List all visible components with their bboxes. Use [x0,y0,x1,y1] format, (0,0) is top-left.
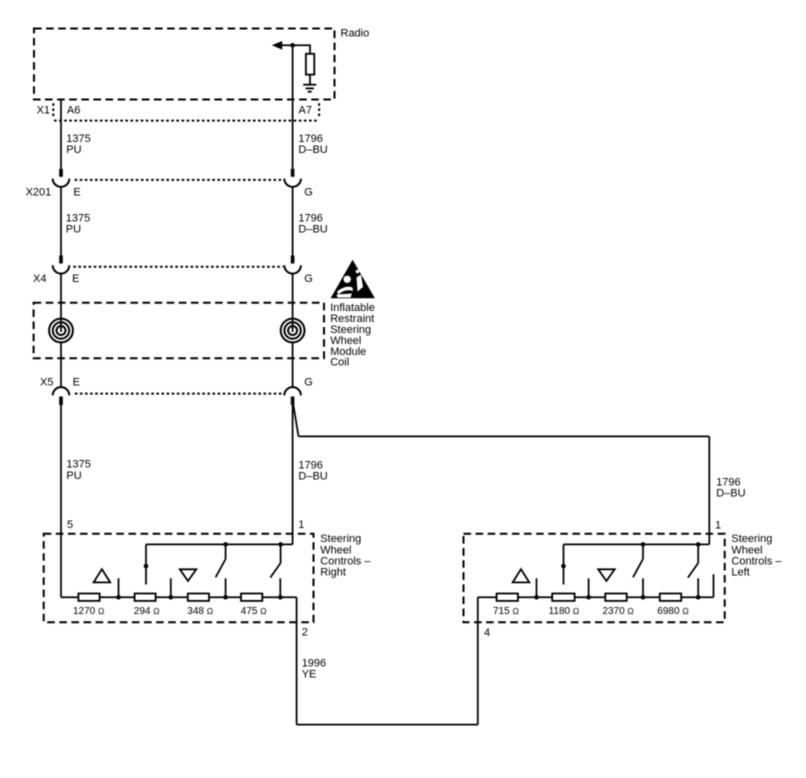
switch S1 fixed contact (right box) [145,544,147,584]
bus junction dots (right box) [116,595,121,600]
connector X201 pin row dotted line [75,179,283,181]
wire: branch jog from X5 G [293,405,298,436]
resistor 294 ohm [135,594,156,601]
svg-text:PU: PU [66,144,81,156]
svg-text:2: 2 [302,627,308,639]
symbol: down arrow (left box) [598,569,615,581]
svg-text:Left: Left [731,567,749,579]
svg-text:294 Ω: 294 Ω [134,606,160,617]
wire: left vertical X4 to coil [60,274,62,332]
wire: right vertical X4 to coil [292,274,294,332]
wire: lower bus (left box) [478,596,714,598]
svg-text:715 Ω: 715 Ω [493,606,519,617]
svg-text:D–BU: D–BU [298,144,327,156]
wire: left vertical coil to X5 [60,342,62,387]
switch S1 fixed contact (left box) [563,544,565,584]
svg-text:6980 Ω: 6980 Ω [657,606,688,617]
svg-text:A6: A6 [67,104,80,116]
switch S4 (left box) [696,542,701,547]
wire: pin 2 drop (right box) [296,597,298,724]
resistor 475 ohm [241,594,262,601]
connector X201 terminal E [53,169,70,187]
svg-text:PU: PU [66,224,81,236]
svg-text:G: G [304,377,313,389]
svg-text:348 Ω: 348 Ω [187,606,213,617]
wire: pin 4 drop (left box) [477,597,479,724]
svg-text:A7: A7 [299,104,312,116]
wire: horizontal branch to left controls [299,435,710,437]
symbol: down arrow (right box) [180,569,197,581]
svg-text:Right: Right [320,567,346,579]
connector X1 pin row [54,120,318,122]
switch S3 (left box) [641,542,646,547]
arrowhead pointing left [272,41,282,50]
symbol: up arrow (left box) [513,569,530,582]
wire: right vertical X5 to controls-right pin 1 (1796 D-BU) [292,405,294,544]
svg-text:E: E [73,186,80,198]
wire: down to resistor [309,45,311,55]
connector X5 terminal E (flipped) [53,387,70,405]
wire: A6 left vertical from radio to X201 [60,99,62,169]
svg-text:1270 Ω: 1270 Ω [73,606,104,617]
connector X201 terminal G [284,169,301,187]
resistor 1180 ohm [552,594,574,601]
svg-text:X4: X4 [33,273,46,285]
svg-text:1375: 1375 [66,459,90,471]
wire: resistor to ground [309,75,311,85]
wire: upper bus (right box) [146,543,293,545]
switch stubs (left box) [536,578,538,597]
wire: radio internal horizontal [281,44,311,46]
svg-text:Coil: Coil [330,357,349,369]
resistor 1270 ohm [78,594,99,601]
wire: left vertical X5 to controls-right bus (1375 PU) [60,405,62,597]
switch S4 (right box) [278,542,283,547]
wire: left vertical X201 to X4 [60,187,62,256]
wire: right vertical X201 to X4 [292,187,294,256]
Radio box [34,29,335,100]
svg-text:D–BU: D–BU [716,487,745,499]
switch stubs (right box) [118,578,120,597]
connector X4 terminal G [284,256,301,274]
wire: upper bus (left box) [564,543,710,545]
Steering Wheel Controls - Right box [44,534,314,623]
connector X4 pin row dotted line [73,266,283,268]
svg-text:2370 Ω: 2370 Ω [602,606,633,617]
coil module box [34,303,324,359]
svg-text:G: G [304,273,313,285]
svg-text:5: 5 [67,519,73,531]
wire: vertical to left controls pin 1 [708,436,710,544]
switch S3 (right box) [223,542,228,547]
svg-text:475 Ω: 475 Ω [241,606,267,617]
resistor 6980 ohm [660,594,681,601]
svg-text:YE: YE [302,668,317,680]
wire: lower bus (right box) [61,596,297,598]
svg-text:G: G [304,186,313,198]
wire: bottom link 1996 YE [297,724,478,726]
wire: right vertical coil to X5 [292,342,294,387]
resistor 715 ohm [497,594,518,601]
svg-text:D–BU: D–BU [298,471,327,483]
bus junction dots (left box) [534,595,539,600]
connector X5 terminal G (flipped) [284,387,301,405]
svg-text:E: E [72,273,79,285]
svg-text:1: 1 [298,519,304,531]
connector X4 terminal E [53,256,70,274]
svg-text:PU: PU [66,470,81,482]
node: A7 junction dot [290,43,295,48]
svg-text:X5: X5 [40,377,53,389]
svg-text:1180 Ω: 1180 Ω [549,606,580,617]
svg-text:X201: X201 [26,186,52,198]
connector X5 pin row dotted line [75,393,283,395]
svg-text:X1: X1 [37,104,50,116]
resistor 348 ohm [188,594,209,601]
ground [303,84,316,86]
svg-text:Radio: Radio [341,27,370,39]
coil (clockspring) right [281,319,305,343]
svg-text:E: E [73,377,80,389]
resistor: radio internal [306,54,314,75]
wire: A7 right vertical from junction to X201 [292,45,294,169]
svg-text:1: 1 [715,519,721,531]
coil (clockspring) left [49,319,73,343]
symbol: up arrow (right box) [94,569,111,582]
wire: spare stub up at right end (left box) [713,574,715,597]
resistor 2370 ohm [605,594,626,601]
svg-text:4: 4 [484,627,490,639]
warning triangle icon [331,260,375,298]
Steering Wheel Controls - Left box [464,534,725,623]
svg-text:D–BU: D–BU [298,224,327,236]
